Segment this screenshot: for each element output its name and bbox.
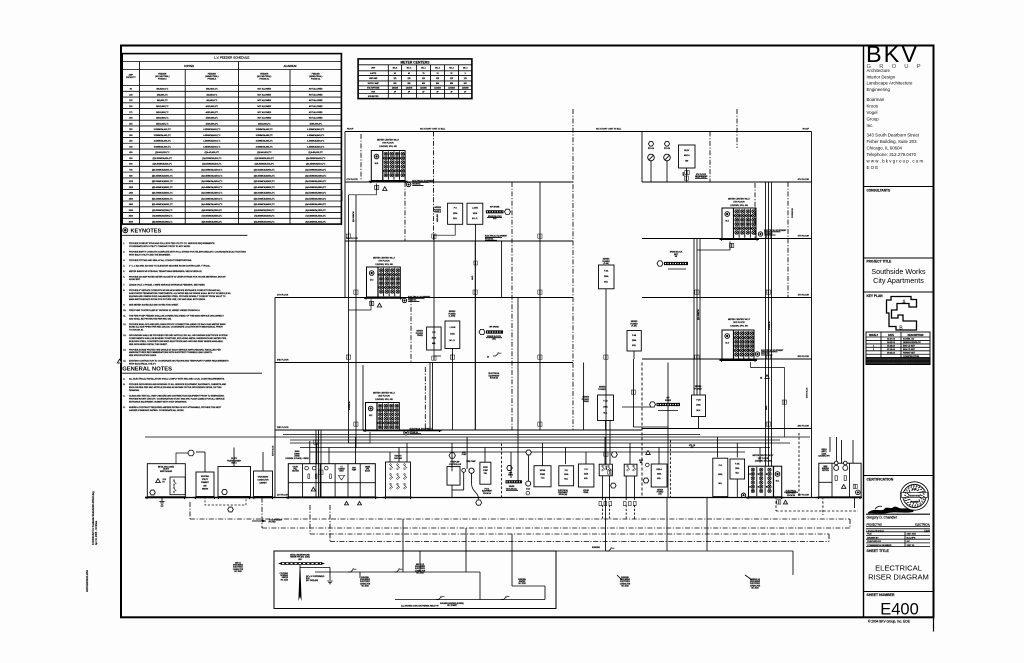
- svg-text:TO ROUGH-IN.: TO ROUGH-IN.: [129, 330, 144, 332]
- svg-text:BLOCKS (1A): BLOCKS (1A): [506, 487, 517, 490]
- svg-text:NOT ALLOWED: NOT ALLOWED: [309, 105, 323, 108]
- meter center MC-1: [746, 455, 784, 499]
- firm disciplines text: [867, 68, 913, 92]
- equipment room tag 5B: [758, 229, 787, 236]
- svg-text:120/208V, 3PH, 4W: 120/208V, 3PH, 4W: [375, 399, 393, 401]
- svg-text:2000: 2000: [129, 210, 133, 212]
- svg-text:CITY 1 & B: CITY 1 & B: [903, 363, 914, 365]
- svg-text:3-600MCM,#3G,2"C: 3-600MCM,#3G,2"C: [256, 146, 274, 148]
- svg-text:100A: 100A: [473, 212, 478, 215]
- svg-text:Architecture: Architecture: [867, 68, 891, 73]
- svg-text:(7)4-600MCM,350G,1"C: (7)4-600MCM,350G,1"C: [202, 216, 223, 218]
- svg-text:E O E: E O E: [867, 165, 879, 170]
- svg-text:3-250MCM,#4G,1"C: 3-250MCM,#4G,1"C: [154, 129, 172, 131]
- svg-text:4#3/0,#6G,1"C: 4#3/0,#6G,1"C: [206, 118, 219, 120]
- svg-text:Boarman: Boarman: [867, 97, 885, 102]
- svg-text:04.02.04: 04.02.04: [887, 342, 896, 344]
- svg-text:GROUNDING: GROUNDING: [360, 579, 371, 581]
- svg-text:90% CD SET: 90% CD SET: [903, 349, 916, 351]
- svg-text:4-500MCM: 4-500MCM: [349, 401, 351, 410]
- building floor lines: [145, 132, 858, 498]
- svg-text:BONDING: BONDING: [621, 577, 629, 579]
- svg-text:CONDUCTOR: CONDUCTOR: [620, 583, 631, 585]
- svg-text:(8)4-600MCM,400G,1"C: (8)4-600MCM,400G,1"C: [202, 221, 223, 223]
- ground detail wires: [300, 551, 545, 600]
- svg-text:SIX STORY UNIT 'A' BLD.: SIX STORY UNIT 'A' BLD.: [420, 128, 446, 131]
- svg-text:RTU-2A: RTU-2A: [664, 147, 671, 150]
- svg-text:(6)4-450MCM,#4/0G,2"C: (6)4-450MCM,#4/0G,2"C: [305, 204, 327, 206]
- svg-text:(4)4-400MCM,#3/0G,1"C: (4)4-400MCM,#3/0G,1"C: [201, 187, 223, 189]
- svg-text:ELECTRICAL: ELECTRICAL: [875, 564, 922, 573]
- svg-text:PUMP: PUMP: [352, 469, 356, 471]
- svg-text:METER CENTER 'MC-5': METER CENTER 'MC-5': [728, 199, 751, 201]
- svg-text:Kroos: Kroos: [867, 104, 879, 109]
- svg-text:120/208: 120/208: [434, 87, 441, 89]
- svg-text:(4)4-500MCM,#3/0G,1"C: (4)4-500MCM,#3/0G,1"C: [201, 193, 223, 195]
- svg-text:Interior Design: Interior Design: [867, 74, 896, 79]
- svg-text:(7)3-600MCM,350G,1"C: (7)3-600MCM,350G,1"C: [152, 216, 173, 218]
- svg-text:13.: 13.: [123, 335, 126, 337]
- svg-text:(2)4-4/0,#2G,2"C: (2)4-4/0,#2G,2"C: [309, 152, 324, 154]
- svg-text:50% CD SET: 50% CD SET: [903, 345, 916, 347]
- utility feed hex: [176, 450, 194, 463]
- meter center MC-4: [364, 258, 403, 300]
- svg-text:ROOM 1B: ROOM 1B: [787, 495, 796, 497]
- svg-text:ELEV/STAIR: ELEV/STAIR: [341, 190, 344, 201]
- svg-text:#3/0: #3/0: [298, 559, 301, 561]
- svg-text:4#3,#8G,1"C: 4#3,#8G,1"C: [206, 94, 218, 96]
- svg-text:M.B.: M.B.: [604, 413, 608, 415]
- wire riser tags: [314, 176, 787, 474]
- svg-text:(3)4-500MCM,#2/0G,1"C: (3)4-500MCM,#2/0G,1"C: [201, 181, 223, 183]
- svg-text:MH/: MH/: [203, 485, 207, 487]
- water pipe ground bus: [274, 551, 556, 609]
- svg-text:UTILITY: UTILITY: [293, 467, 299, 469]
- spare block 2B bus: [650, 398, 681, 411]
- svg-text:200: 200: [129, 118, 132, 120]
- grounding conductor cabinet: [252, 471, 275, 499]
- svg-text:1327.01E: 1327.01E: [907, 534, 917, 536]
- svg-text:3#6,#10G,1"C: 3#6,#10G,1"C: [156, 89, 169, 91]
- svg-text:ELECTRODE: ELECTRODE: [360, 581, 370, 583]
- svg-text:WP SPARE: WP SPARE: [490, 206, 500, 209]
- svg-text:PHASE AL: PHASE AL: [259, 78, 270, 81]
- svg-text:NO. 25/26: NO. 25/26: [621, 585, 628, 587]
- svg-text:PROVIDE SEAL-OFF AND EXPLOSION: PROVIDE SEAL-OFF AND EXPLOSION PROOF CON…: [129, 323, 227, 326]
- svg-text:1327.01: 1327.01: [907, 545, 916, 547]
- svg-text:800: 800: [436, 83, 439, 85]
- panel L-3: [445, 321, 460, 349]
- svg-text:(2)3-350MCM,#1G,1"C: (2)3-350MCM,#1G,1"C: [153, 164, 173, 166]
- svg-text:M.B.: M.B.: [657, 478, 661, 480]
- svg-text:400: 400: [129, 146, 132, 148]
- svg-text:DESCRIPTION: DESCRIPTION: [908, 335, 924, 337]
- svg-text:(2)3-500MCM,#1/0G,2"C: (2)3-500MCM,#1/0G,2"C: [254, 170, 276, 172]
- feeder tag 3B triangle: [760, 375, 769, 380]
- svg-text:MC-2: MC-2: [449, 68, 453, 70]
- svg-text:PNL: PNL: [484, 473, 487, 475]
- panel P-H: [578, 464, 594, 494]
- shaft rotated text: [273, 190, 344, 456]
- feeder tag 5B: [730, 243, 734, 247]
- roof fan meter RTU-2: [664, 142, 671, 161]
- floor labels: [277, 128, 810, 497]
- svg-text:ASSOCIATED TERMINATION COMPONE: ASSOCIATED TERMINATION COMPONENTS. ALL W…: [129, 292, 231, 295]
- svg-text:RTU-1A: RTU-1A: [648, 147, 655, 150]
- svg-text:SECTION: SECTION: [292, 470, 299, 472]
- svg-text:ALL ELECTRICAL INSTALLATION SH: ALL ELECTRICAL INSTALLATION SHALL COMPLY…: [129, 378, 225, 381]
- svg-text:(3)4-500MCM,#2/0G,2"C: (3)4-500MCM,#2/0G,2"C: [305, 181, 327, 183]
- svg-text:Southside Works: Southside Works: [871, 267, 926, 276]
- svg-text:120/208V, 3PH, 4W: 120/208V, 3PH, 4W: [379, 146, 397, 148]
- ground rod: [280, 565, 302, 601]
- feeder tag 4A: [370, 301, 382, 307]
- svg-text:(2)4-500MCM: (2)4-500MCM: [698, 309, 700, 320]
- svg-text:GROUNDING: GROUNDING: [750, 581, 761, 583]
- svg-text:120/208 VOLT, 3 PHASE, 4 WIRE: 120/208 VOLT, 3 PHASE, 4 WIRE SERVICE EN…: [129, 284, 206, 287]
- svg-text:3-500MCM,#3G,1"C: 3-500MCM,#3G,1"C: [154, 141, 172, 143]
- feeder tag 6A: [375, 185, 387, 190]
- svg-text:P-4B: P-4B: [632, 335, 637, 337]
- svg-text:200A: 200A: [604, 275, 609, 278]
- svg-text:# APTS: # APTS: [370, 72, 377, 75]
- svg-text:04.08.05: 04.08.05: [887, 363, 896, 365]
- svg-text:MACH: MACH: [684, 154, 690, 157]
- svg-text:NOT ALLOWED: NOT ALLOWED: [309, 117, 323, 120]
- right bonding labels: [617, 575, 761, 589]
- label series fussed L3: [448, 311, 456, 318]
- svg-text:GENERAL NOTES: GENERAL NOTES: [122, 367, 172, 373]
- svg-text:NOT ALLOWED: NOT ALLOWED: [309, 93, 323, 96]
- svg-text:120/208: 120/208: [392, 87, 399, 89]
- svg-text:SPKR: SPKR: [483, 467, 488, 469]
- issue table: [866, 332, 930, 365]
- svg-text:70: 70: [422, 73, 424, 75]
- sheet number section: [864, 592, 934, 619]
- tenant disconnect stack: [384, 455, 413, 500]
- svg-text:ROOM 1A: ROOM 1A: [483, 492, 492, 495]
- panel P-4A: [599, 259, 615, 289]
- equipment room tag 2A: [404, 428, 433, 435]
- svg-text:JUMPER: JUMPER: [519, 581, 526, 583]
- svg-text:NO. 25/26: NO. 25/26: [416, 572, 423, 574]
- svg-text:CHECKED BY: CHECKED BY: [867, 541, 882, 543]
- svg-text:CAPACITY: CAPACITY: [126, 76, 137, 79]
- panel P-6: [448, 203, 463, 224]
- svg-text:125: 125: [129, 100, 132, 102]
- svg-text:3#3/0,#6G,1"C: 3#3/0,#6G,1"C: [156, 118, 169, 120]
- elevator machine room panel: [679, 145, 696, 168]
- svg-text:1000: 1000: [129, 181, 133, 183]
- svg-text:1ST FLOOR: 1ST FLOOR: [277, 495, 289, 497]
- svg-text:AND SHALL BE PROTECTED PER NEC: AND SHALL BE PROTECTED PER NEC 695.: [129, 317, 172, 320]
- panel P-NA: [730, 459, 745, 498]
- svg-text:HOUSE: HOUSE: [583, 490, 589, 492]
- svg-text:ELECTRODE: ELECTRODE: [750, 583, 760, 585]
- svg-text:NOT ALLOWED: NOT ALLOWED: [257, 88, 271, 91]
- svg-text:(2)4-500MCM,#1/0G,1"C: (2)4-500MCM,#1/0G,1"C: [201, 170, 223, 172]
- sheet border frame: [121, 46, 934, 632]
- svg-text:ENCLOSURES PER NEC ARTICLE 250: ENCLOSURES PER NEC ARTICLE 250 AND AS SH…: [129, 386, 222, 389]
- svg-text:4-600MCM: 4-600MCM: [769, 321, 771, 330]
- svg-text:120/208: 120/208: [462, 87, 469, 89]
- svg-text:4-600MCM,#3G,1"C: 4-600MCM,#3G,1"C: [203, 146, 221, 148]
- svg-text:(2)4-350MCM,#1G,2"C: (2)4-350MCM,#1G,2"C: [306, 164, 326, 166]
- meter center MC-6: [369, 140, 408, 184]
- svg-text:(L-3GN): (L-3GN): [449, 316, 456, 318]
- spare blocks 4A bus: [479, 326, 503, 341]
- meter center MC-5: [720, 199, 760, 241]
- svg-text:1600: 1600: [129, 198, 133, 200]
- svg-text:ELECTRICAL: ELECTRICAL: [915, 524, 930, 527]
- meter centers table: [358, 59, 472, 99]
- svg-text:(4)3-400MCM,#3/0G,2"C: (4)3-400MCM,#3/0G,2"C: [254, 187, 276, 189]
- svg-text:SUPPLY AMP: SUPPLY AMP: [368, 82, 380, 85]
- panel P-4B: [627, 321, 641, 351]
- svg-text:COMMISSION NUMBER: COMMISSION NUMBER: [867, 545, 892, 547]
- feeder schedule table: [122, 54, 341, 225]
- svg-text:PROVIDE SHORT CIRCUIT / COORDI: PROVIDE SHORT CIRCUIT / COORDINATION STU…: [129, 398, 225, 401]
- svg-text:WP SPARE: WP SPARE: [489, 326, 499, 329]
- svg-text:3-350MCM,#4G,1"C: 3-350MCM,#4G,1"C: [154, 135, 172, 137]
- svg-text:4-500MCM,#3G,1"C: 4-500MCM,#3G,1"C: [203, 141, 221, 143]
- svg-text:CONTROLLER: CONTROLLER: [449, 464, 462, 466]
- svg-text:Group: Group: [867, 117, 880, 122]
- svg-text:CONDUCTOR: CONDUCTOR: [750, 585, 761, 587]
- hse feed wires: [799, 433, 853, 497]
- meter center MC-2: [363, 393, 442, 433]
- svg-text:KEYNOTES: KEYNOTES: [131, 229, 162, 235]
- room partition 1A right: [669, 440, 671, 498]
- svg-text:PANEL: PANEL: [417, 334, 423, 337]
- svg-text:FUSSED: FUSSED: [598, 389, 606, 391]
- svg-text:M.B.: M.B.: [564, 478, 568, 480]
- to primary arrow: [252, 520, 283, 524]
- svg-text:15.: 15.: [123, 361, 126, 363]
- svg-text:DISC SW: DISC SW: [394, 458, 402, 460]
- panel P-3: [427, 327, 442, 350]
- svg-text:P-4A: P-4A: [604, 270, 609, 273]
- svg-text:EXTG BLDG: EXTG BLDG: [807, 387, 809, 398]
- svg-text:120/208: 120/208: [420, 87, 427, 89]
- svg-text:P-3: P-3: [432, 332, 435, 334]
- copyright note: [868, 620, 910, 624]
- svg-text:(3)3-350MCM,#1/0G,1"C: (3)3-350MCM,#1/0G,1"C: [152, 175, 174, 177]
- svg-text:12.: 12.: [123, 324, 126, 326]
- svg-text:WHERE A CONTRACT REQUIRED AMPE: WHERE A CONTRACT REQUIRED AMPERE RATING …: [129, 406, 222, 409]
- house panel HSE-A: [651, 464, 667, 496]
- equipment feed stubs: [145, 437, 830, 478]
- svg-text:NO. 25/26: NO. 25/26: [281, 579, 288, 581]
- svg-text:CITY 1 & B: CITY 1 & B: [903, 359, 914, 361]
- svg-text:MC-4: MC-4: [421, 68, 425, 70]
- svg-text:5TH FLOOR: 5TH FLOOR: [798, 236, 810, 238]
- svg-text:UTILITY: UTILITY: [202, 479, 209, 481]
- svg-text:(2)3-4/0,#2G,2"C: (2)3-4/0,#2G,2"C: [257, 152, 272, 154]
- svg-text:3#1,#6G,1"C: 3#1,#6G,1"C: [157, 100, 169, 102]
- svg-text:4#2/0,#6G,1"C: 4#2/0,#6G,1"C: [206, 112, 219, 114]
- svg-text:SWKRS: SWKRS: [202, 488, 209, 490]
- svg-text:800: 800: [464, 83, 467, 85]
- svg-text:07.16.04: 07.16.04: [887, 349, 896, 351]
- utility metal switchgear: [145, 464, 187, 499]
- svg-text:ROOF: ROOF: [803, 129, 810, 131]
- svg-text:(W/NEUTRAL): (W/NEUTRAL): [205, 75, 218, 78]
- svg-text:1" C, 4 #10 AND #10 GND TO ELE: 1" C, 4 #10 AND #10 GND TO ELEVATOR MACH…: [129, 264, 211, 267]
- svg-text:2ND FLOOR: 2ND FLOOR: [277, 427, 289, 429]
- svg-text:200A: 200A: [696, 404, 701, 407]
- eq room label 5th: [485, 235, 508, 241]
- svg-text:03.04.05: 03.04.05: [887, 359, 896, 361]
- svg-text:COUPLING: COUPLING: [280, 573, 289, 575]
- svg-text:(NO. 25/26) (4/0): (NO. 25/26) (4/0): [306, 580, 319, 582]
- svg-text:METER CENTERS: METER CENTERS: [400, 61, 430, 65]
- svg-text:175: 175: [129, 112, 132, 114]
- svg-text:ELEV: ELEV: [639, 460, 643, 462]
- svg-text:ALL GROUND CONN. EXOTHERMIC WE: ALL GROUND CONN. EXOTHERMIC WELD TYP.: [401, 605, 439, 608]
- svg-text:ALUMINUM: ALUMINUM: [284, 65, 297, 68]
- svg-text:FUSSED: FUSSED: [657, 492, 664, 494]
- svg-text:NOT ALLOWED: NOT ALLOWED: [309, 99, 323, 102]
- svg-text:COORDINATE WITH UTILITY COMPAN: COORDINATE WITH UTILITY COMPANY PRIOR TO…: [129, 245, 191, 248]
- svg-text:10.: 10.: [123, 310, 126, 312]
- svg-text:MC-6: MC-6: [393, 68, 397, 70]
- gec labels: [233, 563, 527, 608]
- svg-text:100A: 100A: [450, 332, 455, 335]
- svg-text:Gregory D. Chandler: Gregory D. Chandler: [867, 516, 898, 520]
- svg-text:6TH FLOOR: 6TH FLOOR: [382, 143, 394, 145]
- svg-text:(2)4-250MCM,#2G,2"C: (2)4-250MCM,#2G,2"C: [306, 158, 326, 160]
- svg-text:BOND ALL GAS PIPING PER NEC 25: BOND ALL GAS PIPING PER NEC 250.104. COO…: [129, 326, 223, 329]
- general notes block: [122, 367, 262, 413]
- svg-text:A: A: [902, 300, 906, 306]
- svg-text:4-600MCM,#3G,2"C: 4-600MCM,#3G,2"C: [307, 146, 325, 148]
- svg-text:SCHEM. DD: SCHEM. DD: [903, 339, 915, 341]
- svg-text:3#1/0,#6G,1"C: 3#1/0,#6G,1"C: [156, 106, 169, 108]
- svg-text:SECTION: SECTION: [822, 470, 829, 472]
- svg-text:METER BANKS W/ INTEGRAL TENANT: METER BANKS W/ INTEGRAL TENANT MAIN BREA…: [129, 270, 203, 273]
- svg-text:PROVIDE EMPTY CONDUITS COMPLET: PROVIDE EMPTY CONDUITS COMPLETE WITH PUL…: [129, 250, 246, 253]
- svg-text:09.03.04: 09.03.04: [887, 352, 896, 354]
- svg-text:225: 225: [129, 123, 132, 125]
- svg-text:(5)3-500MCM,#4/0G,1"C: (5)3-500MCM,#4/0G,1"C: [152, 198, 174, 200]
- signature: [868, 506, 914, 514]
- svg-text:METER CENTER 'MC-3': METER CENTER 'MC-3': [728, 319, 751, 321]
- disconnect jog 3rd: [487, 353, 502, 359]
- svg-text:FUSSED: FUSSED: [694, 388, 702, 390]
- svg-text:3RD FLOOR: 3RD FLOOR: [733, 322, 745, 324]
- svg-text:14.: 14.: [123, 349, 126, 351]
- svg-text:EXISTING CONTRACTOR TO COORDIN: EXISTING CONTRACTOR TO COORDINATE SHUTDO…: [129, 360, 229, 363]
- svg-text:ELEV: ELEV: [684, 150, 690, 152]
- svg-text:NOT ALLOWED: NOT ALLOWED: [257, 105, 271, 108]
- svg-text:120/208V, 3PH, 4W: 120/208V, 3PH, 4W: [730, 325, 748, 327]
- svg-text:FIRE PUMP CONTROLLER BY DIVISI: FIRE PUMP CONTROLLER BY DIVISION 15, WIR…: [129, 310, 201, 312]
- svg-text:VAULT: VAULT: [231, 462, 237, 465]
- svg-text:(W/NEUTRAL): (W/NEUTRAL): [309, 75, 322, 78]
- svg-text:MANUFACTURER RECOMMENDATIONS W: MANUFACTURER RECOMMENDATIONS WITH SHORTE…: [129, 351, 213, 354]
- ground drop wires: [403, 498, 707, 552]
- svg-text:(5)3-500MCM,#4/0G,2"C: (5)3-500MCM,#4/0G,2"C: [254, 198, 276, 200]
- firm name text: [867, 97, 885, 128]
- plot stamp text (rotated): [86, 491, 98, 592]
- column grid dash-dot lines: [361, 109, 788, 430]
- svg-text:CONDUCTOR: CONDUCTOR: [360, 583, 371, 585]
- svg-text:CT: CT: [341, 467, 343, 469]
- svg-text:11.: 11.: [123, 315, 126, 317]
- utility transformer vault: [217, 458, 252, 499]
- svg-text:(P-4B): (P-4B): [631, 326, 637, 328]
- svg-text:NJC/JPS: NJC/JPS: [907, 537, 916, 539]
- svg-text:(4)4-500MCM,#3/0G,2"C: (4)4-500MCM,#3/0G,2"C: [305, 193, 327, 195]
- svg-text:SERIES: SERIES: [657, 490, 663, 492]
- svg-text:EXISTING: EXISTING: [201, 476, 210, 478]
- svg-text:125: 125: [408, 78, 411, 80]
- svg-text:4-250MCM,#4G,2"C: 4-250MCM,#4G,2"C: [307, 129, 325, 131]
- spare block 4B bus: [657, 251, 688, 270]
- svg-text:BUILDING STEEL, CONCRETE ENCAS: BUILDING STEEL, CONCRETE ENCASED ELECTRO…: [129, 340, 224, 343]
- hex tag 1A: [611, 451, 650, 457]
- svg-text:3#4/0,#4G,1"C: 3#4/0,#4G,1"C: [156, 123, 169, 125]
- svg-text:PROJECT NO: PROJECT NO: [867, 524, 883, 527]
- label series fussed 3: [416, 331, 424, 338]
- electrical room dashed outline: [776, 497, 858, 515]
- svg-text:DRAWN BY: DRAWN BY: [867, 536, 879, 539]
- svg-text:ENTRANCE EQUIPMENT, SUBMIT WIT: ENTRANCE EQUIPMENT, SUBMIT WITH SHOP DRA…: [129, 401, 187, 404]
- svg-text:MB: MB: [640, 462, 642, 464]
- svg-text:GK: GK: [907, 541, 911, 543]
- svg-text:PROVIDE SURGE PROTECTIVE DEVIC: PROVIDE SURGE PROTECTIVE DEVICE AT EACH …: [129, 348, 221, 351]
- svg-text:5: 5: [465, 73, 466, 75]
- svg-text:PHASE A: PHASE A: [208, 78, 217, 81]
- svg-text:(3)3-500MCM,#2/0G,1"C: (3)3-500MCM,#2/0G,1"C: [152, 181, 174, 183]
- svg-text:PHASE A: PHASE A: [158, 78, 167, 81]
- svg-text:(6)4-500MCM,250G,1"C: (6)4-500MCM,250G,1"C: [202, 210, 223, 212]
- meter M-1A: [518, 430, 531, 495]
- msb feed wires: [310, 437, 407, 464]
- transformer T-1A: [534, 466, 551, 487]
- svg-text:CORRIDOR: CORRIDOR: [792, 208, 794, 218]
- svg-text:120/208: 120/208: [448, 87, 455, 89]
- svg-text:ELECTRODE: ELECTRODE: [620, 581, 630, 583]
- svg-text:RM: RM: [685, 160, 688, 162]
- svg-text:VOLTS/PHASE: VOLTS/PHASE: [367, 86, 380, 89]
- svg-text:GROUNDING: GROUNDING: [233, 565, 244, 567]
- svg-text:4#1,#6G,1"C: 4#1,#6G,1"C: [206, 100, 218, 102]
- svg-text:NOT ALLOWED: NOT ALLOWED: [257, 99, 271, 102]
- svg-text:PROVIDE 4" SERVICE CONDUITS W/: PROVIDE 4" SERVICE CONDUITS W/ 600 MCM S…: [129, 289, 222, 292]
- svg-text:4#3/0: 4#3/0: [766, 406, 768, 410]
- svg-text:800: 800: [408, 83, 411, 85]
- svg-text:(2)3-250MCM,#2G,1"C: (2)3-250MCM,#2G,1"C: [153, 158, 173, 160]
- svg-text:(8)3-600MCM,400G,2"C: (8)3-600MCM,400G,2"C: [254, 221, 275, 223]
- svg-text:1800: 1800: [129, 204, 133, 206]
- svg-text:(2)3-4/0,#2G,1"C: (2)3-4/0,#2G,1"C: [155, 152, 170, 154]
- fused switch 1A-1: [599, 464, 616, 519]
- svg-text:(6)4-450MCM,#4/0G,1"C: (6)4-450MCM,#4/0G,1"C: [201, 204, 223, 206]
- svg-text:(6)3-500MCM,250G,2"C: (6)3-500MCM,250G,2"C: [254, 210, 275, 212]
- svg-text:PMPS: PMPS: [508, 475, 513, 477]
- svg-text:WITH ELECTRICAL UTILITY.: WITH ELECTRICAL UTILITY.: [129, 363, 157, 366]
- svg-text:P-2A: P-2A: [603, 400, 608, 403]
- svg-text:WITH EACH UTILITY AND THE ENGI: WITH EACH UTILITY AND THE ENGINEER.: [129, 253, 171, 256]
- svg-text:BONDING: BONDING: [518, 579, 526, 581]
- svg-text:NO. 25/26/27: NO. 25/26/27: [447, 605, 457, 607]
- svg-text:ISSUE #: ISSUE #: [869, 335, 879, 337]
- svg-text:(3)4-350MCM,#1/0G,1"C: (3)4-350MCM,#1/0G,1"C: [201, 175, 223, 177]
- svg-text:GROUNDING: GROUNDING: [258, 477, 269, 479]
- svg-text:300: 300: [129, 135, 132, 137]
